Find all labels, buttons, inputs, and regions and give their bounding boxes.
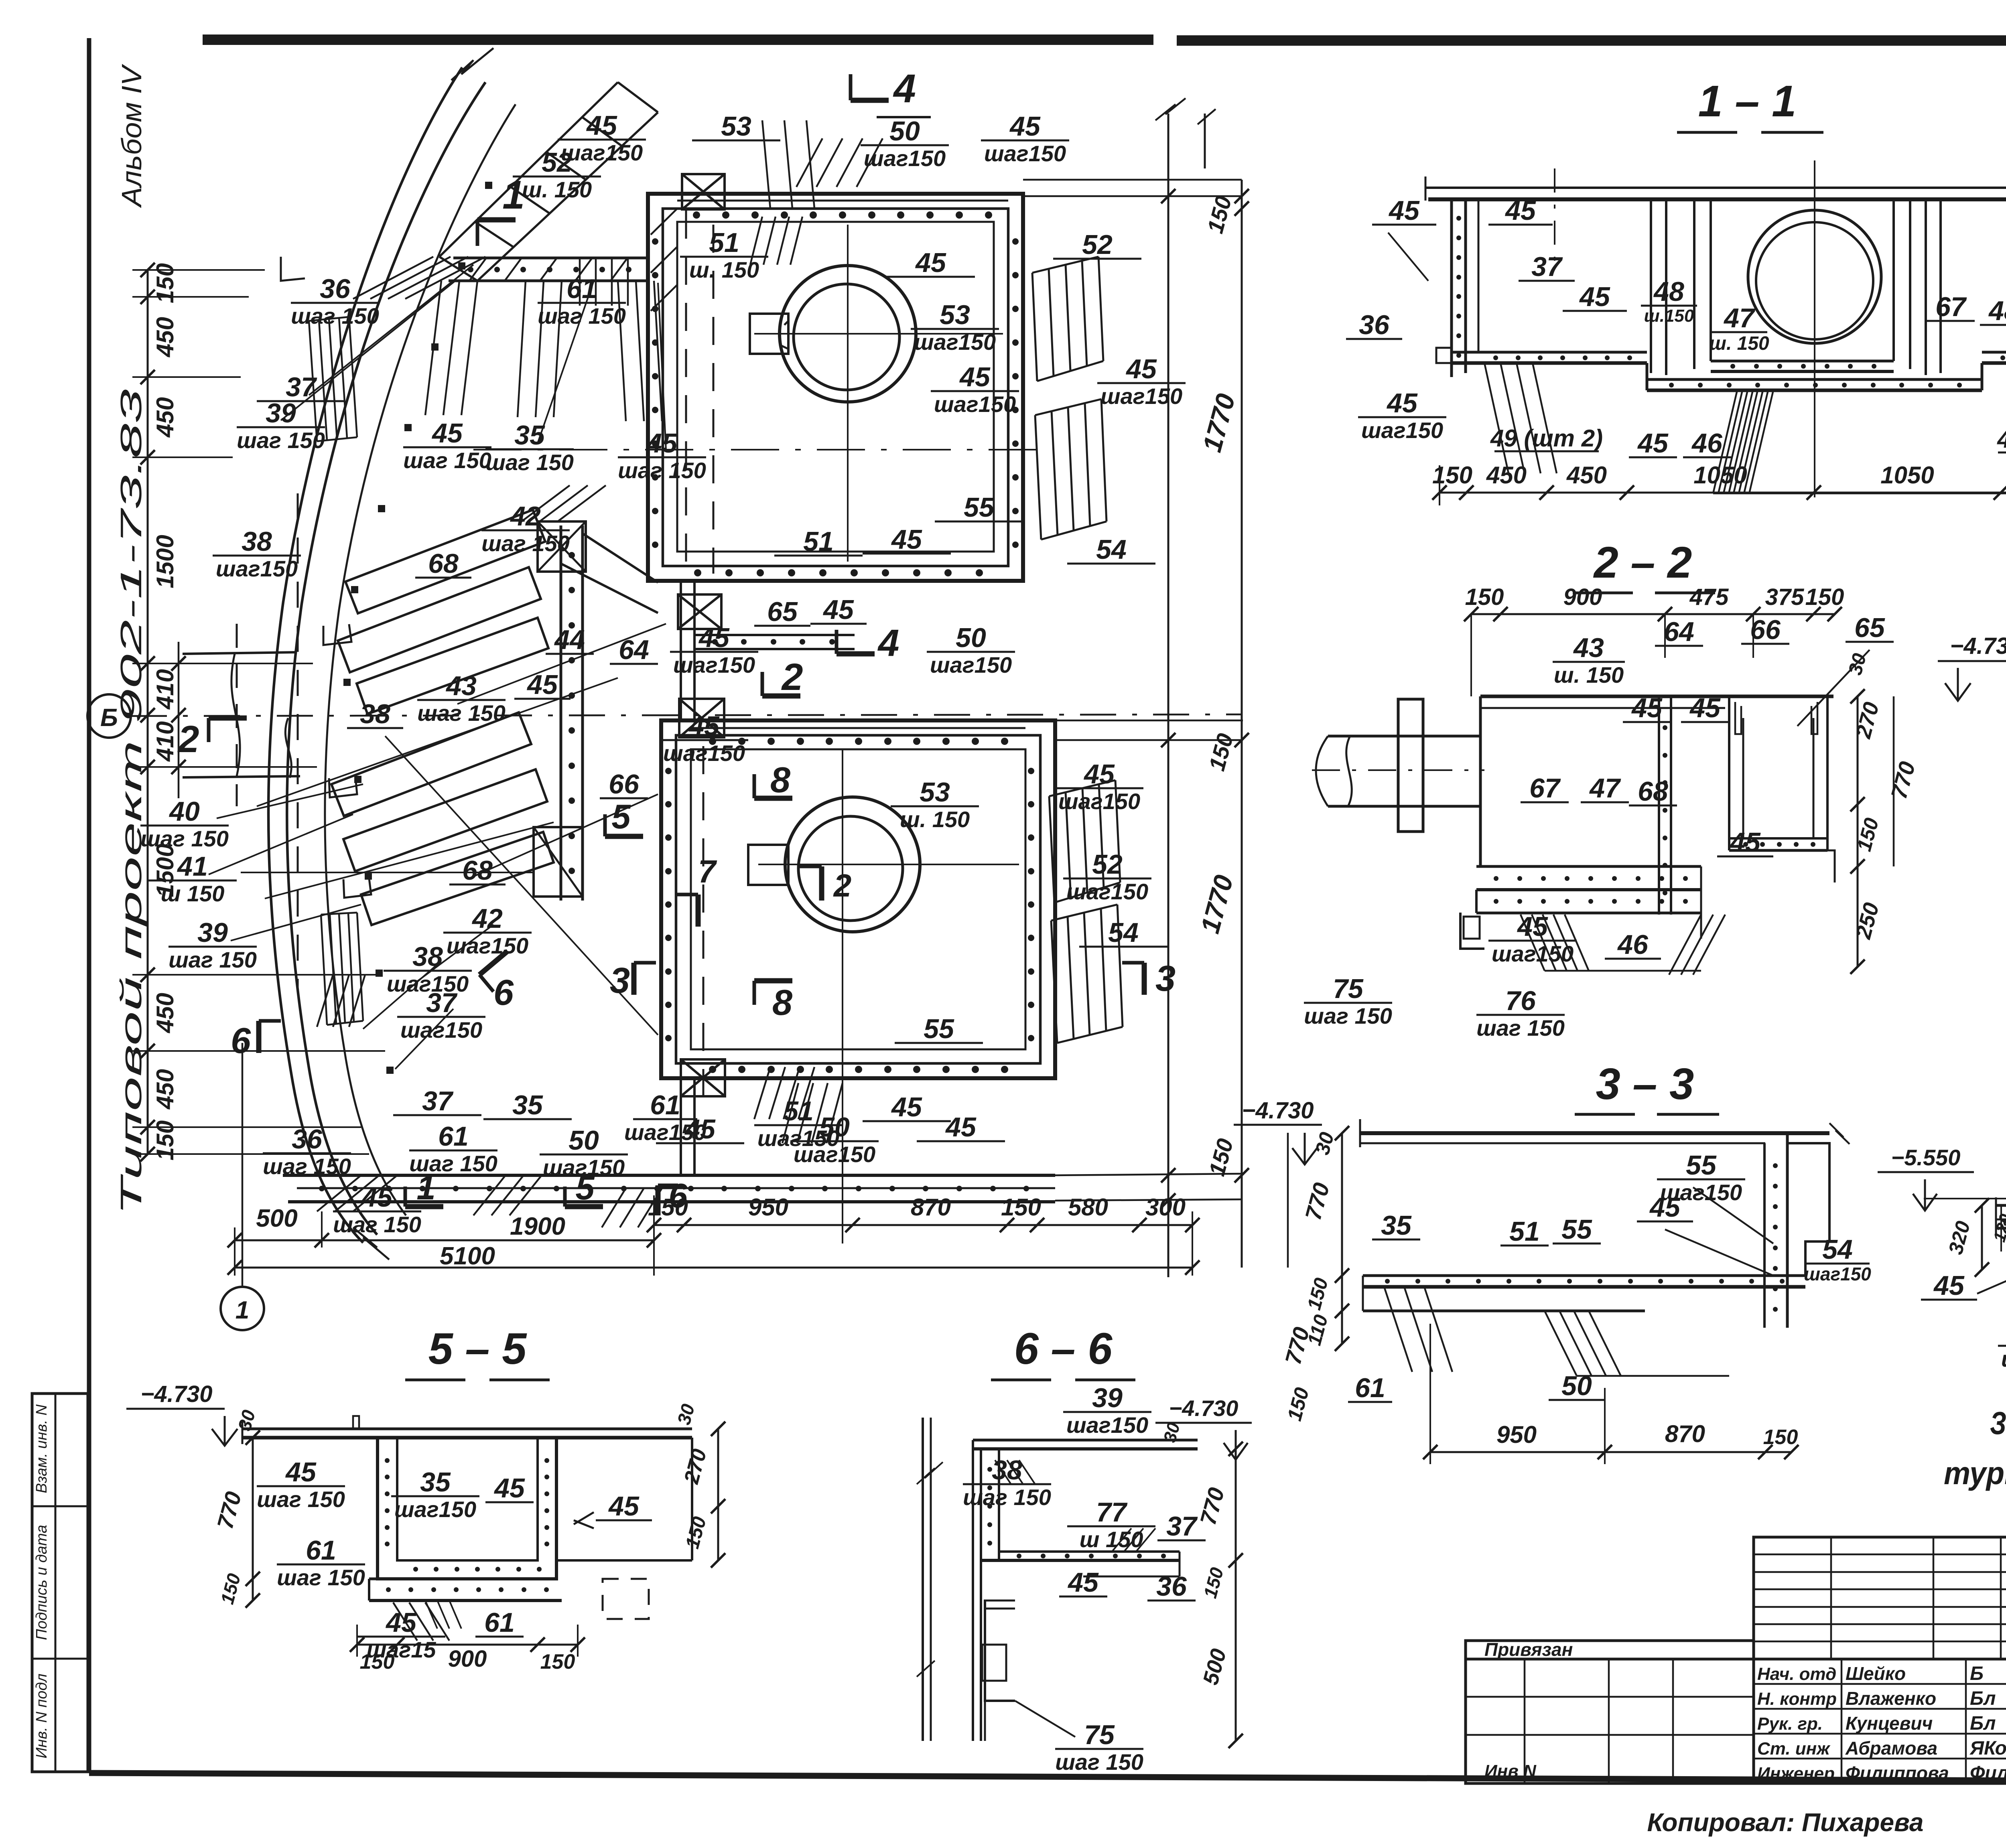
grid axis 1 circle — [221, 1287, 264, 1330]
hatch band right of lower room lower — [1051, 905, 1117, 921]
svg-text:−5.550: −5.550 — [1891, 1145, 1961, 1170]
section flag 6 right — [479, 951, 507, 975]
s11 pipe circle inner — [1756, 222, 1873, 339]
svg-text:45: 45 — [1649, 1192, 1681, 1223]
svg-text:45: 45 — [822, 594, 854, 625]
svg-text:45: 45 — [1009, 111, 1041, 142]
right grid line 3 long vertical — [1167, 114, 1169, 1277]
svg-text:4: 4 — [877, 622, 899, 664]
upper room outer wall — [648, 194, 1023, 581]
s22 top dim chain — [1471, 613, 1835, 615]
seam cross box bottom — [681, 1059, 725, 1096]
svg-text:450: 450 — [152, 993, 179, 1033]
svg-text:50: 50 — [956, 623, 986, 653]
svg-text:55: 55 — [1561, 1214, 1592, 1245]
section flag 5 bottom — [565, 1204, 603, 1209]
s11 hatch fans below — [1484, 363, 1509, 473]
svg-text:5100: 5100 — [440, 1242, 495, 1270]
svg-text:45: 45 — [1729, 827, 1761, 858]
diagonal wall band top-left — [439, 82, 618, 257]
svg-text:ш. 150: ш. 150 — [1709, 333, 1769, 354]
s55 right dims — [717, 1429, 719, 1560]
svg-text:35: 35 — [420, 1467, 451, 1497]
svg-text:35: 35 — [1381, 1210, 1412, 1241]
svg-text:42: 42 — [510, 501, 541, 531]
svg-text:76: 76 — [1505, 986, 1536, 1016]
fan 51-45 bottom inside lower room — [754, 1067, 770, 1119]
svg-text:45: 45 — [431, 418, 463, 448]
svg-text:Н. контр: Н. контр — [1757, 1689, 1837, 1709]
section flag 4 mid — [837, 651, 875, 657]
svg-text:55: 55 — [964, 492, 995, 523]
s66 top slab — [973, 1439, 1198, 1442]
svg-text:450: 450 — [152, 397, 179, 438]
svg-text:45: 45 — [891, 524, 922, 555]
s33 bottom slab — [1363, 1274, 1805, 1277]
svg-text:40: 40 — [169, 796, 200, 827]
hatch ticks on band — [469, 258, 486, 281]
upper room centerlines — [847, 225, 849, 562]
svg-text:45: 45 — [1517, 911, 1548, 942]
channel lines below lower room — [680, 1078, 682, 1175]
long leader lines across plan left — [257, 678, 618, 806]
lower room hatch opening outer circle — [785, 797, 920, 932]
s66 step right down — [1179, 1552, 1181, 1576]
bottom dim chain row2 — [654, 1224, 1192, 1226]
svg-text:45: 45 — [1386, 388, 1418, 418]
hatch band right of lower room upper — [1049, 780, 1115, 796]
svg-text:Подпись и дата: Подпись и дата — [33, 1525, 50, 1640]
svg-text:45: 45 — [1388, 195, 1420, 226]
svg-text:45: 45 — [1504, 195, 1536, 226]
svg-text:45: 45 — [1637, 428, 1669, 458]
s33 hatch below — [1384, 1287, 1412, 1372]
svg-text:36: 36 — [1156, 1571, 1187, 1602]
s11 floor step down — [1646, 363, 1649, 390]
svg-text:45: 45 — [959, 362, 991, 392]
fan upper-left wall leaders 36 — [353, 257, 433, 299]
svg-text:45: 45 — [608, 1491, 640, 1521]
svg-text:−4.730: −4.730 — [1242, 1097, 1314, 1124]
s11 channel wall right pair — [1892, 199, 1895, 361]
svg-text:Шейко: Шейко — [1846, 1663, 1906, 1684]
svg-text:шаг150: шаг150 — [663, 740, 745, 766]
svg-text:51: 51 — [709, 227, 739, 258]
svg-text:шаг 150: шаг 150 — [291, 303, 379, 329]
svg-text:65: 65 — [1854, 613, 1885, 643]
s66 left break line — [922, 1418, 924, 1741]
s22 right U channel — [1728, 696, 1730, 850]
upper room hatch opening inner circle — [794, 284, 899, 390]
svg-text:Ст. инж: Ст. инж — [1757, 1739, 1831, 1759]
svg-text:450: 450 — [152, 1069, 179, 1110]
s22 body top slab — [1480, 695, 1833, 698]
seam cross box mid1 — [678, 594, 721, 629]
grid axis B circle — [87, 694, 131, 738]
left stamp table — [32, 1394, 88, 1772]
s11 circle centerline — [1814, 160, 1815, 497]
svg-text:Бл: Бл — [1970, 1688, 1996, 1709]
s22 bottom slab — [1476, 865, 1701, 868]
s11 pipe circle outer — [1748, 210, 1881, 343]
svg-text:45: 45 — [646, 428, 678, 458]
svg-text:3: 3 — [610, 961, 630, 1001]
svg-text:35: 35 — [512, 1090, 543, 1120]
svg-text:шаг15: шаг15 — [366, 1637, 436, 1662]
svg-text:50: 50 — [819, 1112, 850, 1142]
svg-text:шаг 150: шаг 150 — [1476, 1015, 1565, 1041]
ladder band on curve lower — [321, 913, 357, 915]
svg-text:55: 55 — [924, 1014, 954, 1044]
svg-text:75: 75 — [1084, 1720, 1115, 1750]
fan top of upper room 50 — [796, 138, 822, 187]
svg-text:45: 45 — [285, 1457, 317, 1487]
bottom dim verticals — [234, 1227, 236, 1276]
s77 left slab — [1996, 1204, 2006, 1207]
svg-text:шаг150: шаг150 — [1804, 1264, 1871, 1284]
svg-text:50: 50 — [569, 1125, 599, 1156]
svg-text:шаг150: шаг150 — [1066, 879, 1148, 904]
bottom dim chain row1 — [235, 1239, 654, 1241]
svg-text:ш 150: ш 150 — [1080, 1527, 1143, 1552]
svg-text:45: 45 — [493, 1473, 525, 1503]
svg-text:870: 870 — [1665, 1420, 1705, 1447]
svg-text:43: 43 — [445, 671, 477, 701]
svg-text:ш.150: ш.150 — [1644, 306, 1694, 326]
svg-text:6: 6 — [493, 973, 514, 1013]
channel left wall in plan — [560, 525, 562, 901]
title block small grid — [1754, 1537, 2006, 1659]
svg-text:54: 54 — [1822, 1234, 1853, 1265]
s77 dims left — [1981, 1205, 1983, 1270]
grid axis B line — [131, 714, 1242, 716]
svg-text:52: 52 — [542, 147, 572, 178]
svg-text:Филиппова: Филиппова — [1846, 1763, 1949, 1783]
svg-text:47: 47 — [1723, 303, 1756, 333]
right lower vertical dims — [1287, 1133, 1289, 1268]
svg-text:туры принят 15 мм: туры принят 15 мм — [1944, 1455, 2006, 1491]
break squiggles top right — [1155, 98, 1186, 120]
svg-text:67: 67 — [1935, 292, 1967, 322]
svg-text:шаг150: шаг150 — [394, 1497, 476, 1522]
names column rows — [1754, 1659, 2006, 1783]
svg-text:Кунцевич: Кунцевич — [1846, 1713, 1933, 1734]
svg-text:45: 45 — [385, 1607, 417, 1638]
section flag 3 right — [1142, 963, 1147, 995]
seam cross box top — [682, 174, 725, 209]
lower room hatch opening inner circle — [798, 816, 903, 921]
svg-text:75: 75 — [1333, 974, 1364, 1004]
svg-text:61: 61 — [650, 1090, 680, 1120]
svg-text:ш. 150: ш. 150 — [1554, 662, 1624, 688]
s66 right dims — [1235, 1449, 1237, 1741]
ladder band on curve upper — [309, 317, 349, 321]
svg-text:шаг150: шаг150 — [984, 141, 1066, 166]
svg-text:шаг150: шаг150 — [673, 652, 755, 678]
s11 left wall step — [1436, 348, 1452, 363]
frame bottom border — [89, 1773, 2006, 1783]
title block left pr box — [1466, 1641, 1754, 1659]
svg-text:шаг150: шаг150 — [914, 329, 996, 355]
svg-text:53: 53 — [721, 111, 751, 142]
svg-text:ш. 150: ш. 150 — [900, 807, 970, 832]
s66 fan leaders — [995, 1460, 1011, 1484]
svg-text:шаг 150: шаг 150 — [237, 428, 325, 453]
svg-text:шаг 150: шаг 150 — [1055, 1749, 1143, 1775]
svg-text:1: 1 — [416, 1169, 435, 1207]
s55 hatch below — [393, 1603, 417, 1641]
svg-text:41: 41 — [177, 851, 208, 882]
s55 bottom dims — [357, 1644, 578, 1646]
s22 body left wall — [1479, 696, 1482, 866]
svg-text:шаг 150: шаг 150 — [1304, 1003, 1392, 1028]
svg-text:шаг 150: шаг 150 — [417, 700, 506, 726]
svg-text:68: 68 — [462, 855, 493, 886]
svg-text:53: 53 — [940, 300, 970, 330]
svg-text:Альбом IV: Альбом IV — [116, 63, 147, 208]
s66 hooks — [984, 1600, 1015, 1602]
plan lower room extension lines right — [1055, 720, 1243, 722]
svg-text:2: 2 — [781, 656, 803, 698]
s55 top slab — [242, 1428, 692, 1430]
svg-text:Абрамова: Абрамова — [1845, 1738, 1937, 1759]
svg-text:5: 5 — [575, 1169, 595, 1207]
right dim verticals — [1241, 180, 1243, 1268]
svg-text:2: 2 — [833, 868, 852, 903]
upper room middle wall line — [663, 209, 1008, 566]
s22 step right — [1827, 850, 1835, 882]
svg-text:3: 3 — [1155, 959, 1176, 999]
svg-text:4: 4 — [893, 66, 916, 111]
s11 channel floor — [1711, 360, 1894, 363]
svg-text:Влаженко: Влаженко — [1846, 1688, 1936, 1709]
svg-text:1500: 1500 — [152, 844, 179, 897]
svg-text:шаг150: шаг150 — [1492, 941, 1574, 966]
svg-text:150: 150 — [1763, 1426, 1798, 1449]
svg-text:6 – 6: 6 – 6 — [1014, 1324, 1113, 1373]
s22 left bracket — [1460, 913, 1484, 949]
svg-text:150: 150 — [1465, 584, 1504, 610]
svg-text:шаг 150: шаг 150 — [618, 458, 706, 483]
svg-text:ш. 150: ш. 150 — [689, 257, 759, 282]
svg-text:шаг 150: шаг 150 — [257, 1487, 345, 1512]
svg-text:шаг150: шаг150 — [930, 652, 1012, 678]
svg-text:шаг 150: шаг 150 — [485, 450, 574, 475]
section flag 6 left — [256, 1021, 262, 1053]
svg-text:44: 44 — [554, 625, 585, 655]
plan top extension lines right — [1023, 179, 1242, 181]
section flag 8 upper — [754, 796, 792, 801]
svg-text:150: 150 — [1001, 1194, 1041, 1221]
dots along curve inner face — [485, 182, 492, 189]
svg-text:38: 38 — [360, 699, 390, 729]
svg-text:шаг150: шаг150 — [794, 1142, 875, 1167]
svg-text:шаг 150: шаг 150 — [963, 1485, 1051, 1510]
svg-text:51: 51 — [783, 1096, 814, 1126]
svg-text:450: 450 — [152, 317, 179, 357]
svg-text:39: 39 — [197, 917, 228, 948]
extra leader lines 40-41-39-38-37 — [217, 784, 363, 818]
s22 pipe flange — [1398, 699, 1423, 832]
svg-text:шаг150: шаг150 — [1100, 383, 1182, 409]
svg-text:36: 36 — [320, 274, 351, 304]
svg-text:150: 150 — [1805, 584, 1844, 610]
svg-text:45: 45 — [586, 110, 617, 141]
s77 level line long — [1924, 1198, 2006, 1199]
svg-text:Рук. гр.: Рук. гр. — [1757, 1714, 1823, 1734]
svg-text:150: 150 — [152, 263, 179, 303]
curved wall outer line — [268, 67, 462, 1243]
s11 left wall centerline — [1554, 168, 1555, 265]
svg-text:46: 46 — [1691, 428, 1723, 458]
s11 channel wall left pair — [1650, 199, 1652, 373]
s55 dashed box right — [603, 1579, 649, 1619]
svg-text:Защитный слой бетона для ра: Защитный слой бетона для рабочей арма- — [1990, 1405, 2006, 1441]
svg-text:950: 950 — [1496, 1421, 1537, 1448]
svg-text:61: 61 — [438, 1121, 469, 1152]
hatch band right of upper room upper — [1032, 257, 1098, 273]
left dimension chain — [147, 270, 149, 1154]
svg-text:Инженер: Инженер — [1757, 1764, 1835, 1783]
svg-text:5 – 5: 5 – 5 — [428, 1324, 527, 1373]
svg-text:48: 48 — [1653, 276, 1684, 307]
svg-text:Бл: Бл — [1970, 1713, 1996, 1734]
svg-text:65: 65 — [767, 596, 798, 627]
s55 right step — [691, 1438, 693, 1560]
svg-text:45: 45 — [1631, 693, 1663, 723]
svg-text:68: 68 — [1638, 776, 1668, 807]
right second vertical top — [1204, 114, 1206, 168]
title block left grid — [1466, 1659, 1754, 1783]
dashed hidden lines lower room — [703, 746, 705, 1099]
svg-text:шаг150: шаг150 — [934, 392, 1016, 417]
svg-text:49 (шт2): 49 (шт2) — [1997, 426, 2006, 453]
frame left border — [87, 38, 91, 1773]
s11 bottom dim chain — [1440, 492, 2006, 494]
svg-text:45: 45 — [1579, 282, 1610, 312]
svg-text:37: 37 — [426, 988, 458, 1018]
svg-text:Б: Б — [1970, 1663, 1984, 1684]
small bracket hooks on curve — [323, 624, 351, 645]
section flag 1 top — [477, 217, 516, 223]
svg-text:Инв N: Инв N — [1484, 1761, 1537, 1781]
fan 38 lower-left on curve — [317, 975, 333, 1027]
svg-text:375: 375 — [1765, 584, 1805, 610]
svg-text:300: 300 — [1145, 1194, 1186, 1221]
plan bottom extension lines right — [1055, 1174, 1242, 1175]
svg-text:шаг 150: шаг 150 — [333, 1212, 421, 1237]
fan 42 upper — [522, 485, 570, 521]
svg-text:шаг 150: шаг 150 — [277, 1565, 365, 1590]
s11 left floor — [1452, 351, 1647, 354]
s55 left dim — [252, 1438, 254, 1601]
section flag 1 bottom — [405, 1204, 443, 1209]
svg-text:2 – 2: 2 – 2 — [1593, 538, 1692, 587]
svg-text:45: 45 — [891, 1092, 922, 1122]
section flag 3 left — [631, 963, 637, 995]
svg-text:Копировал: Пихарева: Копировал: Пихарева — [1647, 1808, 1923, 1837]
hatch band right of upper room lower — [1035, 399, 1101, 415]
svg-text:45: 45 — [1067, 1567, 1099, 1598]
s11 right floor — [1982, 351, 2006, 354]
svg-text:шаг 150: шаг 150 — [538, 303, 626, 329]
section flag 5 mid — [605, 834, 643, 839]
fan 50 below lower room — [782, 1083, 798, 1143]
svg-text:950: 950 — [748, 1194, 788, 1221]
section flag 2 mid — [762, 694, 800, 699]
svg-text:1 – 1: 1 – 1 — [1698, 77, 1797, 126]
lower room extra top wall line — [691, 727, 1025, 729]
svg-text:42: 42 — [471, 903, 503, 934]
svg-text:52: 52 — [1092, 849, 1123, 880]
svg-text:1050: 1050 — [1880, 462, 1934, 489]
svg-text:64: 64 — [619, 635, 649, 665]
fan 45-35-45 bottom of upper-left wall — [425, 281, 441, 415]
svg-text:45: 45 — [1689, 693, 1721, 723]
svg-text:64: 64 — [1664, 617, 1694, 647]
axis between rooms dash-dot — [473, 449, 1043, 450]
s22 middle wall — [1658, 696, 1660, 915]
lower room wall dots — [709, 738, 716, 745]
plank elements on curved wall — [345, 510, 545, 613]
svg-text:6: 6 — [231, 1021, 251, 1061]
s11 top slab lines — [1425, 187, 2006, 189]
svg-text:45: 45 — [1933, 1270, 1965, 1301]
svg-text:шаг 150: шаг 150 — [403, 448, 491, 473]
svg-text:50: 50 — [1561, 1371, 1592, 1401]
svg-text:900: 900 — [448, 1646, 487, 1672]
s22 right dim verticals — [1857, 696, 1859, 967]
svg-text:52: 52 — [1082, 229, 1113, 260]
svg-text:Взам. инв. N: Взам. инв. N — [33, 1404, 50, 1493]
svg-text:−4.730: −4.730 — [140, 1381, 212, 1407]
s22 bottom second band — [1475, 890, 1478, 913]
upper room extra top wall line — [677, 200, 1008, 202]
svg-text:37: 37 — [1166, 1511, 1198, 1542]
svg-text:38: 38 — [992, 1455, 1022, 1485]
curve break mark top — [451, 48, 493, 80]
curved wall inner face line — [325, 104, 516, 1215]
svg-text:580: 580 — [1068, 1194, 1108, 1221]
svg-text:шаг150: шаг150 — [561, 140, 643, 165]
svg-text:51: 51 — [803, 526, 834, 557]
svg-text:45: 45 — [1083, 759, 1115, 789]
svg-text:ЯКоб: ЯКоб — [1969, 1738, 2006, 1759]
svg-text:410: 410 — [152, 669, 179, 710]
svg-text:Типовой проект 902-1-73.83: Типовой проект 902-1-73.83 — [114, 389, 148, 1215]
s33 lower line — [1363, 1310, 1645, 1312]
section flag 7 inside — [696, 895, 701, 927]
svg-text:45: 45 — [698, 623, 730, 653]
svg-text:−4.730: −4.730 — [1950, 633, 2006, 659]
svg-text:шаг150: шаг150 — [400, 1017, 482, 1043]
svg-text:45: 45 — [526, 669, 558, 700]
svg-text:150: 150 — [540, 1650, 575, 1674]
s55 box inner lines — [397, 1438, 538, 1560]
section flag 6 bottom — [656, 1185, 661, 1215]
svg-text:450: 450 — [1566, 462, 1607, 489]
s33 bottom dim chain — [1430, 1451, 1791, 1453]
svg-text:37: 37 — [1531, 252, 1563, 282]
svg-text:1: 1 — [236, 1296, 249, 1324]
svg-text:шаг 150: шаг 150 — [169, 947, 257, 972]
svg-text:1500: 1500 — [152, 535, 179, 588]
svg-text:68: 68 — [428, 548, 459, 579]
svg-text:36: 36 — [292, 1124, 323, 1154]
svg-text:шаг150: шаг150 — [624, 1120, 706, 1145]
svg-text:500: 500 — [256, 1205, 297, 1232]
s22 hatch below — [1521, 915, 1545, 971]
